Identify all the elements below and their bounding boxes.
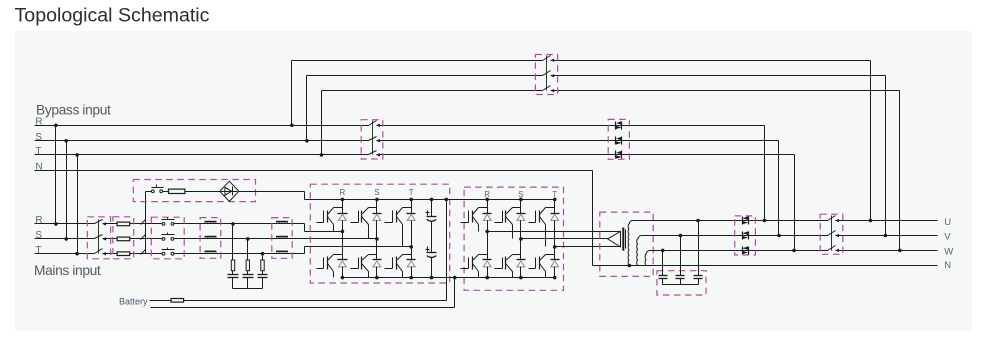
wire output N — [592, 171, 594, 266]
wire top line 1 — [292, 60, 871, 62]
maintenance bypass switch Q3 box — [535, 55, 557, 95]
output SCR W — [742, 247, 744, 255]
battery positive wire — [150, 300, 447, 302]
svg-text:S: S — [35, 230, 42, 241]
wire bypass T drop — [794, 155, 796, 251]
output cap W — [662, 251, 664, 276]
DC cap lower C2 — [431, 222, 433, 253]
transformer neutral junction — [628, 264, 632, 268]
inverter output rail T — [555, 246, 621, 248]
inductor L5 — [276, 236, 288, 238]
hop mark R — [141, 220, 146, 225]
svg-text:U: U — [944, 217, 951, 228]
DC cap upper C1 — [431, 200, 433, 217]
output SCR box — [735, 216, 756, 255]
svg-text:Battery: Battery — [119, 297, 148, 307]
inverter upper IGBT R — [487, 200, 489, 214]
svg-text:Bypass input: Bypass input — [36, 102, 111, 117]
rectifier box — [310, 184, 449, 283]
output SCR V — [742, 232, 744, 240]
inverter lower IGBT T — [554, 247, 556, 260]
mains fuse FU2 — [117, 237, 130, 241]
contactor K1 — [165, 223, 171, 226]
input inductor box 1 — [200, 218, 221, 259]
battery negative riser — [454, 278, 456, 308]
rectifier lower IGBT S — [376, 239, 378, 260]
inverter upper IGBT S — [520, 200, 522, 214]
charger fuse — [169, 189, 185, 193]
inductor L4 — [276, 221, 288, 223]
DC- bus — [343, 277, 555, 279]
rectifier lower IGBT R — [342, 232, 344, 260]
output switch Q4 — [828, 219, 836, 222]
output cap V — [680, 236, 682, 276]
contactor K2 — [165, 238, 171, 241]
wire bypass T to mains T — [77, 155, 79, 254]
svg-text:S: S — [35, 132, 42, 143]
wire bypass R drop — [764, 126, 766, 221]
battery positive riser — [446, 200, 448, 301]
transformer core — [622, 228, 624, 251]
transformer box — [600, 212, 653, 276]
wire top line 3 — [322, 90, 900, 92]
transformer secondary coil V — [637, 236, 642, 266]
wire mains R — [35, 223, 305, 225]
svg-text:T: T — [552, 190, 557, 199]
mains fuse FU3 — [117, 252, 130, 256]
maintenance bypass switch Q3 — [543, 59, 551, 62]
inductor L3 — [205, 251, 217, 253]
wire output V — [642, 235, 938, 237]
inverter box — [464, 187, 563, 290]
svg-text:W: W — [944, 246, 953, 257]
wire output U — [633, 220, 938, 222]
mains fuse FU1 — [117, 222, 130, 226]
svg-text:S: S — [518, 190, 523, 199]
svg-text:N: N — [944, 260, 951, 271]
rectifier upper IGBT R — [342, 200, 344, 214]
wire mains S — [35, 238, 377, 240]
inverter output rail R — [488, 231, 621, 233]
wire bypass S to mains S — [66, 141, 68, 239]
rectifier upper IGBT T — [411, 200, 413, 214]
mains breaker Q1 box — [87, 217, 110, 259]
transformer delta primary — [608, 231, 621, 247]
RC branch R (resistor+capacitor) — [232, 224, 234, 261]
wire bypass N — [35, 170, 593, 172]
bypass SCR S — [615, 137, 617, 145]
output cap common bus — [663, 284, 699, 286]
bypass SCR T — [615, 151, 617, 159]
output switch Q4 box — [820, 214, 843, 254]
contactor K3 — [165, 252, 171, 255]
charger switch — [154, 190, 160, 193]
RC branch T (resistor+capacitor) — [262, 254, 264, 261]
inverter output rail S — [521, 238, 608, 240]
hop mark S — [141, 235, 146, 240]
charger wire — [146, 191, 305, 193]
svg-text:T: T — [35, 245, 41, 256]
svg-text:Mains input: Mains input — [34, 263, 101, 278]
svg-text:R: R — [484, 190, 490, 199]
RC branch S (resistor+capacitor) — [247, 239, 249, 261]
svg-text:Topological Schematic: Topological Schematic — [15, 4, 210, 26]
battery fuse — [171, 299, 184, 303]
bypass SCR box — [608, 119, 629, 159]
input inductor box 2 — [272, 218, 292, 259]
input contactor box — [151, 217, 184, 259]
rectifier upper IGBT S — [376, 200, 378, 214]
wire mains T — [35, 253, 305, 255]
wire top line 2 — [307, 75, 886, 77]
inductor L6 — [276, 251, 288, 253]
bypass breaker Q2 — [369, 124, 377, 127]
inductor L1 — [205, 221, 217, 223]
inverter lower IGBT S — [520, 239, 522, 260]
output cap box — [657, 271, 706, 295]
battery negative wire — [151, 307, 455, 309]
rectifier lower IGBT T — [411, 247, 413, 260]
mains breaker Q1 — [95, 222, 103, 225]
svg-text:T: T — [35, 146, 41, 157]
wire bypass R — [35, 125, 765, 127]
bypass SCR R — [615, 122, 617, 130]
charger box — [133, 180, 255, 202]
wire output W — [650, 250, 938, 252]
bypass breaker Q2 box — [361, 120, 383, 159]
charger tap vertical — [145, 192, 147, 254]
wire bypass S drop — [778, 141, 780, 236]
svg-text:R: R — [340, 188, 346, 197]
mains fuse box — [113, 217, 134, 259]
svg-text:V: V — [944, 231, 951, 242]
transformer secondary coil U — [628, 221, 632, 266]
hop mark T — [141, 250, 146, 255]
svg-text:R: R — [35, 215, 42, 226]
output cap U — [698, 221, 700, 276]
wire bypass R to mains R — [55, 126, 57, 224]
DC+ bus — [305, 199, 555, 201]
inductor L2 — [205, 236, 217, 238]
charger rectifier diamond — [220, 181, 239, 201]
inverter lower IGBT R — [487, 232, 489, 260]
svg-text:S: S — [374, 188, 379, 197]
svg-text:T: T — [409, 188, 414, 197]
wire bypass T — [35, 154, 795, 156]
inverter upper IGBT T — [554, 200, 556, 214]
wire bypass S — [35, 140, 779, 142]
RC common bus — [233, 288, 263, 290]
transformer secondary coil W — [645, 250, 649, 265]
output SCR U — [742, 217, 744, 225]
